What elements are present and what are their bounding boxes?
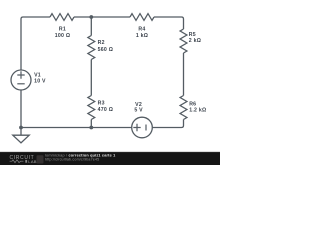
svg-text:10 V: 10 V [34,78,46,84]
footer logo CIRCUIT LAB [10,155,37,164]
resistor R6 [180,96,187,120]
svg-text:R1: R1 [59,27,66,33]
resistor R1 [50,14,74,21]
wire R5 to R6 [183,53,185,96]
label R1 [55,27,71,39]
wire V1 bottom to ground node [20,90,22,128]
svg-text:R2: R2 [98,40,105,46]
svg-text:560 Ω: 560 Ω [98,47,114,53]
ground [13,128,29,143]
svg-text:R3: R3 [98,101,105,107]
svg-text:2 kΩ: 2 kΩ [189,38,201,44]
footer button box [37,155,44,163]
svg-text:LAB: LAB [28,159,36,164]
label R3 [98,101,114,114]
resistor R2 [88,36,95,60]
node A junction dot R1/R4/R2 [89,15,93,19]
wire R4 to top-right corner down to R5 [154,17,184,29]
junction dot R3 bottom [89,126,93,130]
label R2 [98,40,114,53]
wire R3 to bottom node [90,120,92,128]
junction dot ground node [19,126,23,130]
wire R1 to R4 through node A [74,16,130,18]
wire bottom from ground node to V2 left [21,127,132,129]
svg-text:R6: R6 [189,101,196,107]
svg-text:470 Ω: 470 Ω [98,107,114,113]
svg-text:R5: R5 [189,32,196,38]
wire node A down to R2 [90,17,92,36]
svg-text:1.2 kΩ: 1.2 kΩ [189,108,206,114]
label V1 [34,73,46,85]
resistor R4 [130,14,154,21]
label V2 [134,102,143,114]
resistor R5 [180,29,187,53]
footer bar [0,152,220,165]
voltage source V2 [132,117,153,138]
svg-text:http://circuitlab.com/c/9ba7e4: http://circuitlab.com/c/9ba7e45 [45,158,99,162]
label R4 [136,27,148,39]
label R5 [189,32,201,44]
resistor R3 [88,96,95,120]
svg-text:5 V: 5 V [134,108,143,114]
svg-text:1 kΩ: 1 kΩ [136,33,148,39]
svg-text:R4: R4 [138,27,145,33]
label R6 [189,101,206,113]
voltage source V1 [11,70,31,90]
wire R2 to R3 [90,60,92,96]
svg-text:100 Ω: 100 Ω [55,33,71,39]
wire top-left from V1 up and right to R1 [21,17,50,70]
wire R6 down to bottom-right corner to V2 [152,120,183,128]
